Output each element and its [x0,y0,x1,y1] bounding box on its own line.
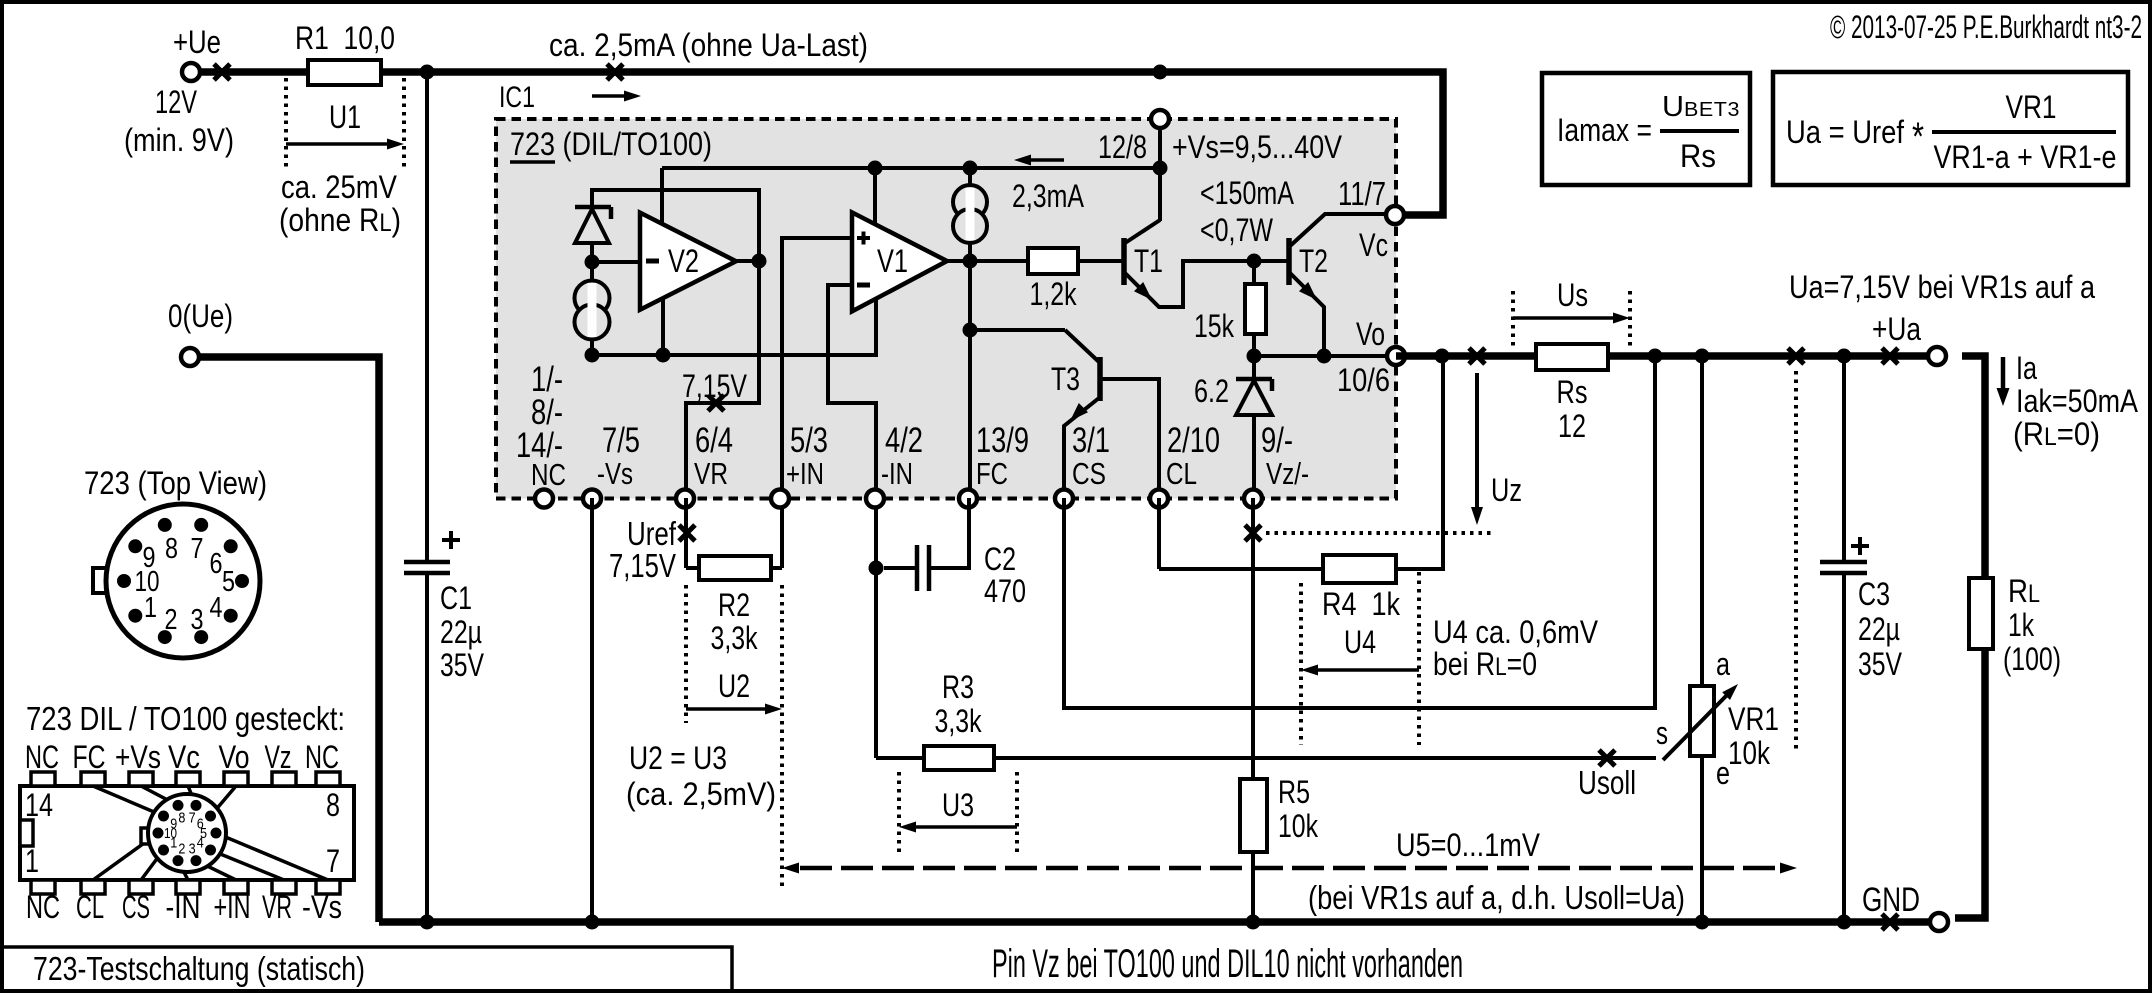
junction V2 minus [585,255,600,270]
svg-text:CS: CS [122,889,150,925]
svg-text:2: 2 [165,604,178,636]
svg-text:Ia: Ia [2016,350,2037,386]
wire 15k bottom [1252,334,1256,356]
svg-text:U2 = U3: U2 = U3 [629,740,727,776]
svg-text:<150mA: <150mA [1200,175,1295,211]
svg-text:(ca. 2,5mV): (ca. 2,5mV) [626,776,776,812]
svg-text:VR1: VR1 [2006,89,2057,125]
resistor R5 [1240,779,1267,852]
svg-text:Usoll: Usoll [1578,764,1636,801]
svg-text:FC: FC [73,739,106,775]
svg-text:ca. 2,5mA (ohne Ua-Last): ca. 2,5mA (ohne Ua-Last) [549,27,868,63]
svg-text:-IN: -IN [881,456,913,491]
label pin 2/10 CL [1166,421,1220,491]
junction -Vs internal [585,348,600,363]
U1 dotted lines [286,78,404,167]
DIL mini numbers [164,809,207,857]
label Vc [1359,227,1388,263]
formula VR1 denom [1934,139,2117,175]
label VR1 a [1716,646,1730,682]
svg-text:2,3mA: 2,3mA [1012,178,1085,214]
svg-text:Vz/-: Vz/- [1266,456,1309,491]
svg-text:Vc: Vc [168,739,200,775]
label VR1 value [1728,735,1771,771]
wire FC riser [968,261,972,498]
svg-text:470: 470 [984,573,1026,609]
label +Ua [1872,311,1921,347]
wire VR1 top [1700,356,1704,686]
label Uz [1491,472,1522,508]
resistor R2 [686,498,782,580]
U3 arrow [899,822,1017,833]
svg-text:NC: NC [305,739,339,775]
svg-text:IC1: IC1 [499,81,535,114]
svg-text:*: * [1912,115,1924,159]
junction T3 base [963,323,978,338]
svg-text:CL: CL [1166,456,1197,491]
x-mark U5 [1788,348,1804,364]
formula Iamax [1557,112,1652,148]
resistor R3 [876,746,994,770]
svg-text:6/4: 6/4 [695,421,733,460]
DIL body [20,772,354,894]
label Uref 7,15V [609,547,676,584]
label DIL gesteckt [26,700,345,737]
svg-text:T3: T3 [1051,361,1080,397]
wire V1 top feed [873,168,877,226]
svg-text:Vo: Vo [219,739,250,775]
svg-text:Vc: Vc [1359,227,1388,263]
wire V2 bottom feed [661,297,665,355]
internal supply rail [662,166,1160,170]
U5 dashed arrow [782,863,1797,874]
junction T2 emitter [1317,349,1332,364]
note text Pin Vz [992,942,1463,986]
svg-text:(bei VR1s auf a, d.h. Usoll=Ua: (bei VR1s auf a, d.h. Usoll=Ua) [1308,879,1685,916]
x-mark Uz [1469,348,1485,364]
svg-text:22µ: 22µ [1858,611,1900,647]
wire C1 upper [425,72,429,562]
IC pin circles [535,490,1262,508]
resistor Rs [1536,344,1608,370]
DIL mapping wires [93,786,328,880]
svg-text:T1: T1 [1134,243,1163,279]
label Rs [1557,374,1588,410]
label Vo [1356,316,1385,352]
svg-text:7,15V: 7,15V [609,547,676,584]
title text [33,950,365,987]
svg-text:8: 8 [178,809,185,826]
GND rail [379,918,1929,926]
formula Rs denom [1680,138,1716,174]
svg-text:Ua=7,15V bei VR1s auf a: Ua=7,15V bei VR1s auf a [1789,269,2095,305]
svg-text:+Vs: +Vs [115,739,161,775]
DIL mini TO100 [141,794,226,872]
wire R4 to rail [1396,356,1443,569]
resistor R1 [308,60,381,85]
svg-text:R2: R2 [718,587,750,623]
svg-text:11/7: 11/7 [1338,175,1386,212]
svg-text:U5=0...1mV: U5=0...1mV [1396,827,1541,863]
svg-text:0(Ue): 0(Ue) [168,298,233,334]
svg-text:Pin Vz bei TO100 und DIL10 nic: Pin Vz bei TO100 und DIL10 nicht vorhand… [992,942,1463,986]
label pin 6/4 VR [694,421,733,491]
junction 12/8 [1153,161,1168,176]
junction C3 gnd [1837,915,1852,930]
label 1,2k [1030,276,1078,312]
svg-text:4: 4 [210,592,223,624]
x-mark 7,15V [708,395,724,411]
svg-text:C3: C3 [1858,576,1890,612]
wire VR1 bottom [1700,756,1704,922]
junction cs2 feed [963,161,978,176]
svg-text:R3: R3 [942,669,974,705]
svg-text:RL: RL [2008,573,2040,609]
svg-text:-Vs: -Vs [597,456,633,491]
wire C1 lower [425,573,429,922]
svg-text:+Ue: +Ue [173,24,221,60]
wire V2 top feed [660,168,664,226]
label U3 [942,787,974,823]
label T2 [1299,243,1328,279]
label R4 [1322,586,1401,622]
pin 11/7 Vc [1386,206,1404,224]
resistor RL [1969,578,1993,649]
svg-text:+Ua: +Ua [1872,311,1921,347]
svg-text:U4 ca. 0,6mV: U4 ca. 0,6mV [1433,614,1599,650]
label Iak [2016,383,2139,419]
IC1 current arrow [592,91,641,102]
label pin 7/5 -Vs [597,421,640,491]
Us dotted [1513,291,1630,350]
svg-text:1k: 1k [2008,607,2035,643]
svg-text:1: 1 [25,843,39,879]
svg-text:7/5: 7/5 [602,421,640,460]
U3 dotted [899,772,1017,852]
wire V2 out [736,259,759,263]
wire V2 minus input [592,260,640,264]
wire R5 bottom [1251,852,1255,922]
svg-text:U3: U3 [942,787,974,823]
zener D1 [575,207,611,262]
label VR1 e [1716,755,1730,791]
svg-text:13/9: 13/9 [976,421,1029,460]
svg-text:bei RL=0: bei RL=0 [1433,646,1537,682]
svg-text:NC: NC [25,739,59,775]
svg-text:V2: V2 [668,243,699,279]
label R1 [295,20,395,56]
svg-text:10/6: 10/6 [1337,362,1390,398]
svg-text:Iak=50mA: Iak=50mA [2016,383,2139,419]
svg-text:NC: NC [26,889,60,925]
label min 9V [124,122,234,158]
junction C3 rail [1837,349,1852,364]
label U1 [329,99,361,135]
svg-text:(RL=0): (RL=0) [2013,416,2100,452]
label T1 [1134,243,1163,279]
wire 12/8 drop [1158,119,1162,220]
svg-text:723-Testschaltung (statisch): 723-Testschaltung (statisch) [33,950,365,987]
junction 15k Vo [1247,349,1262,364]
label DIL corners [25,787,340,879]
wire CL to R4 [1159,498,1323,569]
wire R5 riser [1251,498,1255,779]
svg-text:3: 3 [189,841,196,858]
label pin 5/3 +IN [786,421,828,491]
junction C1 top [420,65,435,80]
label U5 [1396,827,1541,863]
junction C1 gnd [420,915,435,930]
label T3 [1051,361,1080,397]
load bracket wire [1955,356,1985,918]
junction -Vs gnd [585,915,600,930]
label 2,3mA [1012,178,1085,214]
current arrow internal [1014,155,1064,166]
fraction bar 2 [1932,130,2116,134]
U4 dotted [1301,572,1419,745]
svg-text:15k: 15k [1194,308,1235,344]
svg-text:723 DIL / TO100 gesteckt:: 723 DIL / TO100 gesteckt: [26,700,345,737]
svg-text:ca. 25mV: ca. 25mV [281,169,398,205]
label 11/7 [1338,175,1386,212]
Uz dotted [1266,531,1494,535]
svg-text:+Vs=9,5...40V: +Vs=9,5...40V [1172,129,1343,165]
svg-text:3,3k: 3,3k [711,620,759,656]
svg-text:5: 5 [222,566,235,598]
label R2 [718,587,750,623]
capacitor C1 [404,531,460,573]
label R5 [1278,774,1319,844]
x-mark +Ua [1882,348,1898,364]
svg-text:10k: 10k [1728,735,1771,771]
U2 arrow [686,704,782,715]
label RL=0 [2013,416,2100,452]
svg-text:R5: R5 [1278,774,1310,810]
svg-text:14: 14 [25,787,53,823]
resistor R4 [1323,555,1396,583]
op-amp V2 [640,213,736,310]
svg-text:U1: U1 [329,99,361,135]
svg-text:7: 7 [191,533,204,565]
svg-text:VR: VR [694,456,728,491]
svg-text:-Vs: -Vs [302,889,342,925]
Uz arrow [1471,373,1483,525]
wire C3 bottom [1842,573,1846,922]
junction T1 T2 [1247,254,1262,269]
x-mark Uref [679,525,695,541]
svg-text:4: 4 [197,835,204,852]
svg-text:CS: CS [1072,456,1106,491]
svg-text:+IN: +IN [786,456,824,491]
label C2 [984,541,1026,609]
junction R5 gnd [1246,915,1261,930]
svg-text:Rs: Rs [1680,138,1716,174]
internal Vo wire [1254,354,1396,358]
svg-text:4/2: 4/2 [885,421,923,460]
label Usoll [1578,764,1636,801]
wire -Vs drop [590,498,594,922]
x-mark Uz takeoff [1245,525,1261,541]
svg-text:6: 6 [210,548,223,580]
label pin 13/9 FC [976,421,1029,491]
svg-text:7,15V: 7,15V [682,368,748,404]
label U2=U3 [629,740,727,776]
svg-text:U2: U2 [718,668,750,704]
svg-text:(ohne RL): (ohne RL) [279,202,401,238]
svg-text:V1: V1 [877,243,908,279]
label 723 top view [84,465,267,501]
svg-text:723 (DIL/TO100): 723 (DIL/TO100) [510,126,712,162]
terminal +Ue [182,63,200,81]
label 0(Ue) [168,298,233,334]
svg-text:C1: C1 [440,580,472,616]
label 12/8 [1098,129,1147,165]
label 0,7W [1200,212,1274,248]
svg-text:R4 1k: R4 1k [1322,586,1401,622]
svg-text:12/8: 12/8 [1098,129,1147,165]
label U2 [718,668,750,704]
formula box Iamax [1542,73,1750,185]
label 723 DIL TO100 [510,126,712,162]
wire 0(Ue) [200,357,379,922]
x-mark Ue [214,64,230,80]
label pin 3/1 CS [1072,421,1110,491]
svg-text:1: 1 [144,592,157,624]
label 12V [155,84,197,120]
label U4 [1344,624,1376,660]
label pins left col [516,360,566,492]
x-mark rail IC1 [607,64,623,80]
svg-text:1,2k: 1,2k [1030,276,1078,312]
svg-text:22µ: 22µ [440,614,482,650]
IC1 723 body [496,119,1396,499]
svg-text:CL: CL [76,889,104,925]
resistor 1,2k [1028,248,1078,274]
formula UBET3 [1662,91,1740,123]
formula Ua [1786,114,1924,159]
label IC1 [499,81,535,114]
TO100 pin numbers [135,533,236,636]
wire V1 out [947,259,970,263]
current source I1 [575,262,610,355]
junction V1 out [963,254,978,269]
label 15k [1194,308,1235,344]
svg-text:35V: 35V [440,647,485,683]
wire +IN riser [782,238,852,568]
label 7,15V internal [682,368,748,404]
wire V2 feedback [592,190,759,261]
zener D2 6.2 [1236,356,1272,498]
current source I2 [953,168,987,261]
label Rs value [1558,408,1586,444]
svg-text:723 (Top View): 723 (Top View) [84,465,267,501]
wire to 1,2k [970,259,1028,263]
svg-text:s: s [1656,715,1668,751]
label ca 2,5mV [626,776,776,812]
svg-text:6.2: 6.2 [1194,373,1229,409]
label ohne RL [279,202,401,238]
capacitor C2 [884,498,969,591]
wire CS sense [1064,356,1655,708]
terminal 0(Ue) [181,348,199,366]
label 6.2 [1194,373,1229,409]
svg-text:3/1: 3/1 [1072,421,1110,460]
svg-text:C2: C2 [984,541,1016,577]
svg-text:R1 10,0: R1 10,0 [295,20,395,56]
svg-text:3: 3 [191,604,204,636]
svg-text:Iamax =: Iamax = [1557,112,1652,148]
x-mark gnd [1882,914,1898,930]
transistor T1 [1124,220,1254,307]
junction VR1 gnd [1695,915,1710,930]
label DIL top pins [25,739,339,775]
transistor T2 [1254,214,1395,356]
label DIL bottom pins [26,889,342,925]
svg-text:VR: VR [262,889,292,925]
svg-text:8: 8 [326,787,340,823]
potentiometer VR1 [1663,684,1738,760]
label 10/6 [1337,362,1390,398]
svg-text:12: 12 [1558,408,1586,444]
copyright [1830,9,2142,45]
label Uref [627,515,677,552]
label Us [1557,277,1588,313]
junction CS sense rail [1648,349,1663,364]
TO100 can [93,504,260,658]
wire T1 collector [1158,168,1162,221]
svg-text:a: a [1716,646,1730,682]
svg-text:Vo: Vo [1356,316,1385,352]
label R2 value [711,620,759,656]
terminal +Ua [1928,347,1946,365]
wire Uref to VR pin [686,261,759,498]
label R3 [942,669,974,705]
svg-text:2/10: 2/10 [1167,421,1220,460]
label ca 2,5mA [549,27,868,63]
label +Vs range [1172,129,1343,165]
junction V2 bottom feed [656,348,671,363]
svg-text:T2: T2 [1299,243,1328,279]
label pin 9/- Vz [1261,421,1309,491]
wire 1,2k to T1 [1078,259,1124,263]
x-mark Usoll [1599,750,1615,766]
transistor T3 [970,330,1159,498]
fraction bar 1 [1660,129,1739,133]
label C3 [1858,576,1903,682]
U1 arrow [286,139,404,150]
terminal GND [1930,913,1948,931]
label U4 value [1433,614,1599,650]
label 150mA [1200,175,1295,211]
svg-text:GND: GND [1862,881,1920,919]
wire C3 top [1842,356,1846,562]
svg-text:9/-: 9/- [1261,421,1293,460]
label GND [1862,881,1920,919]
svg-text:5/3: 5/3 [790,421,828,460]
label Ua=7,15V [1789,269,2095,305]
svg-text:(100): (100) [2003,641,2061,677]
formula VR1 num [2006,89,2057,125]
svg-text:35V: 35V [1858,646,1903,682]
svg-text:3,3k: 3,3k [935,703,983,739]
formula box Ua [1773,72,2128,185]
U5 dotted right [1794,371,1798,750]
svg-text:NC: NC [531,457,566,492]
U4 arrow [1301,665,1419,676]
Ua rail [1396,352,1929,360]
svg-text:© 2013-07-25 P.E.Burkhardt nt3: © 2013-07-25 P.E.Burkhardt nt3-2 [1830,9,2142,45]
junction VR1 rail [1695,349,1710,364]
